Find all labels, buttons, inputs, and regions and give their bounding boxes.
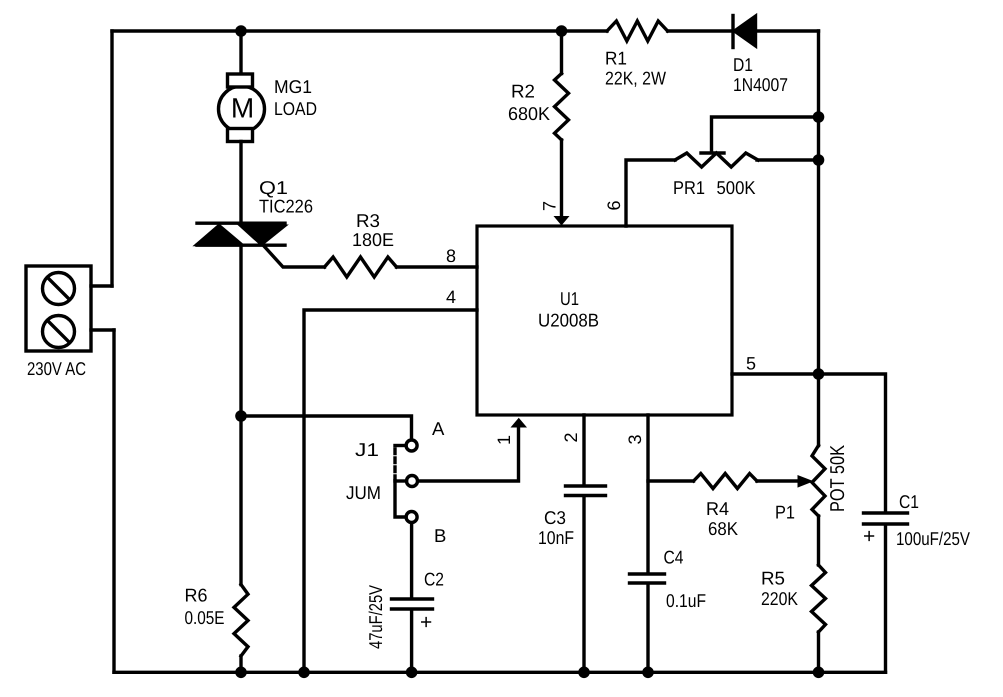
svg-text:2: 2 (561, 432, 581, 442)
wire C3 to bottom rail (582, 497, 585, 672)
svg-text:MG1: MG1 (274, 76, 312, 97)
wire PR1 to right rail (757, 158, 819, 161)
wire triac down to R6 (239, 245, 242, 584)
svg-text:R6: R6 (185, 585, 208, 606)
wire R6 to bottom rail (239, 656, 242, 672)
svg-text:POT 50K: POT 50K (827, 444, 849, 512)
wire pin 6 (626, 160, 675, 226)
svg-text:A: A (432, 418, 445, 439)
svg-text:+: + (420, 611, 432, 634)
resistor R5 (812, 565, 826, 632)
wire B to C2 (410, 524, 413, 598)
wire pin 1 (419, 427, 519, 481)
svg-text:4: 4 (446, 287, 456, 307)
wire node to jumper A (241, 416, 412, 439)
svg-text:LOAD: LOAD (274, 98, 317, 119)
arrow pin 1 (511, 418, 528, 428)
resistor R4 (694, 474, 757, 489)
svg-text:0.05E: 0.05E (185, 607, 225, 628)
motor MG1 (219, 74, 265, 142)
arrow pin 7 (554, 216, 570, 226)
svg-text:R3: R3 (356, 210, 380, 231)
junction node top R2 (556, 25, 568, 37)
potentiometer P1 POT 50K (812, 446, 825, 517)
resistor R2 (555, 74, 569, 140)
resistor R3 (325, 257, 397, 277)
junction node PR1 rail (813, 154, 825, 166)
svg-text:M: M (231, 93, 254, 124)
junction node top motor (235, 25, 247, 37)
wire C4 to bottom rail (646, 585, 649, 673)
svg-text:R5: R5 (761, 568, 785, 589)
svg-text:22K, 2W: 22K, 2W (605, 68, 666, 89)
svg-text:500K: 500K (717, 177, 757, 198)
svg-text:C1: C1 (899, 491, 919, 512)
wire top rail left (112, 29, 607, 32)
jumper stub A (395, 444, 406, 447)
wire PR1 wiper T-bar (701, 151, 724, 154)
wire terminal bottom lead (91, 328, 114, 331)
svg-text:B: B (434, 525, 446, 546)
capacitor C1 (864, 513, 908, 524)
wire PR1 wiper (712, 117, 819, 152)
wire right rail (817, 31, 820, 446)
capacitor C4 (630, 574, 665, 583)
wire POT to R5 (817, 516, 820, 565)
wire R4 to wiper arrow (757, 479, 799, 482)
svg-text:J1: J1 (355, 439, 379, 460)
capacitor C2 (392, 599, 433, 609)
svg-text:100uF/25V: 100uF/25V (896, 528, 971, 549)
svg-text:10nF: 10nF (538, 527, 574, 548)
wire motor to triac (239, 142, 242, 224)
svg-text:7: 7 (540, 201, 560, 211)
svg-text:JUM: JUM (346, 482, 381, 503)
svg-text:47uF/25V: 47uF/25V (365, 584, 386, 649)
wire pin 8 (397, 265, 478, 268)
svg-text:5: 5 (746, 354, 756, 374)
preset PR1 (675, 153, 758, 167)
wire D1 to right rail (755, 29, 819, 32)
svg-text:R2: R2 (511, 81, 535, 102)
svg-text:C3: C3 (544, 507, 566, 528)
junction node C4 bottom (642, 667, 654, 679)
svg-text:P1: P1 (775, 502, 795, 523)
wire pin 5 (732, 374, 886, 512)
diode D1 (733, 16, 756, 48)
svg-text:D1: D1 (733, 54, 753, 75)
svg-text:1N4007: 1N4007 (733, 74, 788, 95)
junction node C3 bottom (578, 667, 590, 679)
triac Q1 (197, 223, 285, 245)
svg-text:U1: U1 (560, 288, 579, 309)
junction node triac jumper (235, 410, 247, 422)
svg-text:68K: 68K (708, 518, 739, 539)
jumper closed link mid-B (395, 481, 406, 517)
svg-text:8: 8 (446, 246, 456, 266)
svg-text:R4: R4 (706, 498, 729, 519)
wire triac gate (263, 245, 325, 267)
op-amp U1 box (477, 226, 732, 415)
svg-text:6: 6 (604, 200, 624, 210)
svg-text:TIC226: TIC226 (259, 196, 313, 217)
junction node wiper rail (813, 111, 825, 123)
junction node C2 bottom (406, 667, 418, 679)
svg-text:C4: C4 (664, 547, 684, 568)
capacitor C3 (566, 486, 606, 496)
svg-text:230V AC: 230V AC (27, 358, 86, 379)
wire bottom rail (114, 671, 886, 674)
wire terminal top lead (91, 284, 112, 287)
junction node pin5 rail (813, 368, 825, 380)
wire C1 to bottom rail (884, 526, 887, 673)
wire motor top lead (239, 31, 242, 75)
jumper J1 pads (406, 440, 417, 523)
wire left rail lower (112, 330, 115, 672)
svg-text:PR1: PR1 (673, 177, 705, 198)
junction node R5 bottom (813, 667, 825, 679)
svg-text:180E: 180E (352, 229, 394, 250)
resistor R1 (607, 21, 668, 41)
svg-text:+: + (863, 525, 875, 548)
arrow P1 wiper (798, 475, 814, 488)
svg-text:3: 3 (625, 434, 645, 444)
wire left rail upper (110, 31, 113, 286)
svg-text:220K: 220K (761, 588, 799, 609)
wire C2 to bottom rail (410, 611, 413, 673)
svg-text:1: 1 (494, 435, 514, 445)
wire pin 4 (304, 310, 477, 672)
jumper stub mid (395, 479, 407, 482)
svg-text:R1: R1 (605, 48, 627, 69)
wire R1 to D1 (668, 29, 732, 32)
terminal block 230V AC (26, 266, 91, 351)
svg-text:C2: C2 (424, 569, 444, 590)
resistor R6 (234, 585, 248, 656)
svg-text:680K: 680K (508, 103, 551, 124)
wire pin 3 (646, 415, 649, 573)
wire R2 top (560, 31, 563, 74)
jumper dashed open link (393, 449, 396, 478)
wire R2 to pin 7 (560, 140, 563, 215)
wire R5 to bottom rail (817, 632, 820, 672)
junction node R6 bottom (235, 667, 247, 679)
wire pin 3 wiper branch (648, 479, 694, 482)
svg-text:U2008B: U2008B (538, 310, 599, 331)
junction node pin4 bottom (298, 667, 310, 679)
svg-text:0.1uF: 0.1uF (666, 590, 706, 611)
wire pin 2 (582, 415, 585, 485)
